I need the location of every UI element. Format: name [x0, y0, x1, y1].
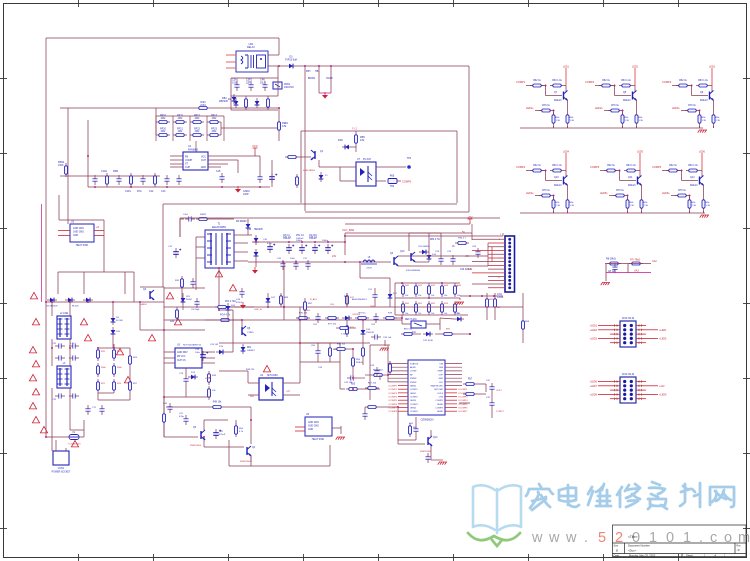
svg-text:HEAT SINK: HEAT SINK	[76, 244, 89, 247]
wire riser x340	[339, 343, 341, 389]
svg-text:C36 1uF: C36 1uF	[383, 337, 392, 339]
wire secondary rails	[234, 234, 252, 236]
svg-text:+24B: +24B	[205, 378, 211, 380]
resistor R84 horiz top	[455, 242, 469, 244]
svg-text:47uH: 47uH	[366, 268, 372, 270]
svg-text:R77 10k: R77 10k	[328, 324, 337, 326]
diode D15	[454, 318, 464, 320]
svg-text:<R: <R	[737, 549, 740, 552]
svg-text:563kΩ: 563kΩ	[356, 362, 363, 364]
bridge diode DB row	[47, 299, 57, 301]
node TP1	[407, 165, 411, 169]
capacitor C16	[259, 173, 261, 177]
transistor Q6	[241, 327, 243, 335]
mosfet Q3 small	[393, 257, 395, 265]
resistor Q11b	[624, 170, 638, 172]
svg-text:D9 SB360: D9 SB360	[236, 221, 247, 223]
capacitor C30 sec	[269, 243, 271, 247]
wire diode stubs	[112, 302, 114, 315]
capacitor C8 mid	[614, 263, 616, 267]
junction dots AC	[51, 301, 53, 303]
svg-text:22P: 22P	[246, 82, 251, 85]
wire bleeder bus	[98, 347, 114, 349]
capacitor C51	[374, 291, 376, 295]
svg-text:LED3: LED3	[709, 66, 716, 69]
resistor Q12e vert	[703, 185, 705, 197]
svg-text:Sheet: Sheet	[686, 554, 693, 558]
svg-text:Monday, May 25, 2010: Monday, May 25, 2010	[629, 554, 656, 558]
transistor Q7	[565, 86, 567, 93]
resistor R37 horiz	[210, 406, 224, 408]
transistor Q1	[314, 151, 316, 159]
strip capacitor C62	[375, 313, 377, 317]
svg-text:OCOMP3: OCOMP3	[458, 397, 468, 399]
svg-text:OVP: OVP	[438, 374, 443, 376]
svg-text:C4n7: C4n7	[183, 214, 189, 216]
strip diode D18	[342, 317, 352, 319]
wire center long bus y288	[164, 287, 205, 289]
transistor Q11	[639, 171, 641, 178]
svg-text:LED4s: LED4s	[526, 192, 534, 195]
wire fb rows bus	[395, 282, 460, 284]
svg-text:OCOMP7: OCOMP7	[458, 411, 468, 413]
wire CN3 left pins	[610, 325, 620, 327]
svg-text:HB: HB	[315, 70, 319, 73]
svg-text:R6E: R6E	[390, 176, 395, 178]
capacitor C11	[118, 175, 120, 179]
wire row2 bottom bus	[520, 212, 705, 214]
capacitor C28	[440, 255, 442, 259]
svg-text:1.1E: 1.1E	[639, 120, 644, 122]
svg-text:GND GND: GND GND	[308, 422, 319, 424]
feedback resistor row1	[402, 283, 404, 297]
diode D12 sec	[255, 249, 257, 259]
wire bus y307 left extension	[164, 306, 300, 308]
resistor R14 vert	[296, 174, 298, 188]
wire CN4 left pins	[610, 381, 620, 383]
svg-text:10k: 10k	[457, 295, 460, 297]
capacitor C41	[491, 383, 493, 387]
transistor Q4	[246, 447, 248, 455]
svg-text:UA2: UA2	[652, 260, 657, 263]
svg-text:2M2: 2M2	[161, 117, 166, 120]
svg-text:CUP: CUP	[185, 166, 190, 169]
svg-text:SFH-615A: SFH-615A	[267, 374, 278, 377]
resistor R31 horiz	[218, 319, 232, 321]
wire LED4 collector stub	[565, 153, 567, 171]
svg-text:1N4148: 1N4148	[366, 332, 374, 334]
svg-text:10k: 10k	[405, 313, 408, 315]
wire bus y320 left extension	[164, 319, 284, 321]
ecap C31	[288, 244, 290, 248]
mosfet Q13	[408, 233, 410, 251]
resistor R91 horiz	[334, 348, 348, 350]
svg-text:VIN: VIN	[439, 363, 443, 365]
svg-text:KA958: KA958	[140, 303, 147, 306]
wire mid bus y272	[58, 271, 134, 273]
svg-text:of: of	[714, 555, 716, 558]
svg-text:1.1E: 1.1E	[556, 120, 561, 122]
svg-text:2M2: 2M2	[212, 117, 217, 120]
ground hatch center	[381, 347, 389, 349]
svg-text:COMP6: COMP6	[652, 165, 662, 169]
wire mid links2	[317, 343, 319, 347]
svg-text:Q10: Q10	[554, 176, 559, 179]
ground hatch U5	[337, 436, 345, 438]
svg-text:+LED7: +LED7	[590, 385, 598, 388]
svg-text:R76 1k: R76 1k	[542, 104, 550, 107]
wire riser x345	[344, 242, 346, 255]
resistor R30 vert	[181, 276, 183, 290]
svg-text:R62 1k: R62 1k	[679, 79, 687, 82]
wire mid bus y407	[166, 406, 210, 408]
ic U3 NCP1207	[175, 348, 202, 368]
wire sec rail2 y262	[248, 261, 360, 263]
resistor Q8d vert	[622, 112, 624, 126]
svg-text:TVR10 6uH: TVR10 6uH	[285, 59, 298, 62]
wire CN3 right pins	[636, 325, 646, 327]
wire rail y224	[345, 223, 470, 225]
resistor grid rows R10-R17	[156, 121, 170, 123]
wire LED3 collector stub	[711, 68, 713, 86]
wire right rail2	[420, 265, 488, 267]
svg-text:GND GND: GND GND	[73, 228, 84, 230]
resistor R8 horiz	[607, 263, 621, 265]
transistor Q5	[200, 431, 202, 439]
svg-text:C10A: C10A	[101, 170, 107, 173]
resistor R5 vert left	[65, 163, 67, 177]
resistor R60v vert	[389, 361, 391, 375]
wire bus into U1 area	[60, 107, 196, 109]
ecap C17	[271, 173, 273, 177]
svg-text:FL3: FL3	[352, 127, 358, 131]
svg-text:R76 1k: R76 1k	[616, 189, 624, 192]
vcc arrow sec	[469, 219, 471, 223]
svg-text:FB VCC: FB VCC	[177, 356, 186, 358]
ground R8 block	[602, 282, 610, 284]
capacitor C20 snub	[192, 278, 194, 282]
svg-text:100u: 100u	[195, 352, 201, 354]
svg-text:R62 1k: R62 1k	[533, 79, 541, 82]
wire bulk stubs	[304, 66, 306, 211]
svg-text:2M2: 2M2	[161, 130, 166, 133]
resistor Q8b	[619, 85, 633, 87]
svg-text:100P: 100P	[243, 193, 249, 196]
junction dots center	[218, 309, 220, 311]
resistor R3 vert	[267, 96, 269, 110]
capacitor C40	[364, 410, 366, 414]
svg-text:GEND: GEND	[437, 411, 444, 413]
wire cluster link	[415, 333, 421, 335]
svg-text:0.1E: 0.1E	[232, 82, 237, 85]
resistor R71 vert	[346, 293, 348, 307]
wire bus y343	[300, 342, 370, 344]
svg-text:C11S: C11S	[125, 190, 131, 193]
resistor R61v	[409, 423, 411, 437]
svg-text:ICOMP1: ICOMP1	[389, 386, 398, 388]
transistor Q10	[565, 171, 567, 178]
junction dots sec rail	[255, 241, 257, 243]
svg-text:CN4 CN-M: CN4 CN-M	[622, 373, 634, 376]
diode D11 sec	[255, 235, 257, 245]
ecap C34	[327, 244, 329, 248]
svg-text:GND_A: GND_A	[254, 308, 262, 311]
resistor R72 vert	[346, 323, 348, 337]
svg-text:OCOMP5: OCOMP5	[458, 404, 468, 406]
svg-text:Date:: Date:	[614, 554, 620, 558]
wire Q9 bottom	[699, 126, 701, 128]
svg-text:Q12: Q12	[690, 176, 695, 179]
svg-text:C1845: C1845	[247, 332, 254, 334]
svg-text:TP1: TP1	[407, 157, 412, 160]
svg-text:FL24B: FL24B	[116, 320, 123, 322]
svg-text:GND: GND	[308, 429, 313, 431]
wire U4 pins	[248, 382, 259, 384]
svg-text:P04 4.7kΩ: P04 4.7kΩ	[225, 301, 236, 303]
resistor Q11e vert	[641, 185, 643, 197]
diode D22 pair	[267, 295, 269, 305]
svg-text:1.1E: 1.1E	[706, 205, 711, 207]
resistor R55 horiz	[346, 388, 360, 390]
svg-text:COMP0: COMP0	[402, 180, 412, 184]
wire AC rail y66	[296, 65, 469, 67]
svg-text:+LED1: +LED1	[590, 325, 598, 328]
svg-text:GND: GND	[201, 166, 207, 169]
wire relay right top pin	[268, 54, 279, 56]
svg-text:R58 100: R58 100	[337, 343, 346, 345]
wire vcc_bar rail	[344, 233, 346, 242]
svg-text:1000uF: 1000uF	[296, 238, 304, 240]
resistor Q7b	[550, 85, 564, 87]
wire U2 pins	[58, 230, 70, 232]
svg-text:D20 SB360: D20 SB360	[418, 246, 430, 248]
svg-text:VREF: VREF	[437, 371, 443, 373]
wire AC section verticals	[51, 302, 53, 316]
wire relay input stubs	[226, 54, 236, 56]
svg-text:R62 1k: R62 1k	[669, 164, 677, 167]
svg-text:R76 1k: R76 1k	[611, 104, 619, 107]
svg-text:R7A: R7A	[137, 190, 142, 193]
diode D17	[389, 291, 391, 301]
wire CN4 right pins	[636, 381, 646, 383]
svg-text:GND GND: GND GND	[73, 232, 84, 234]
svg-text:ICOMP2: ICOMP2	[389, 389, 398, 391]
svg-text:OCOMP4: OCOMP4	[458, 400, 468, 402]
svg-text:R6M: R6M	[113, 170, 118, 173]
wire U6 left bus	[387, 345, 389, 382]
svg-text:GEN2: GEN2	[410, 393, 417, 395]
node dots center	[283, 306, 285, 308]
svg-text:C13: C13	[161, 190, 166, 193]
svg-text:ZD1: ZD1	[247, 347, 252, 349]
svg-text:LED3s: LED3s	[672, 107, 680, 110]
svg-text:+LED8: +LED8	[590, 393, 598, 396]
svg-text:1.1E: 1.1E	[716, 120, 721, 122]
svg-text:470p: 470p	[179, 416, 185, 418]
capacitor C35 row2	[282, 260, 284, 264]
wire U5 red stubs	[295, 426, 305, 428]
wire U4 right riser	[299, 343, 301, 383]
svg-text:GEN3: GEN3	[410, 400, 417, 402]
resistor Q12b	[686, 170, 700, 172]
svg-text:2M2: 2M2	[195, 130, 200, 133]
wire grid to U1 riser	[195, 141, 197, 152]
svg-text:R63 1.1k: R63 1.1k	[552, 79, 562, 82]
ecap C32	[301, 244, 303, 248]
transistor Q14	[427, 437, 429, 445]
svg-text:POWER SOCKET: POWER SOCKET	[52, 472, 71, 474]
diode D2	[235, 98, 237, 108]
svg-text:+LED4: +LED4	[659, 329, 667, 332]
diode D13	[214, 351, 216, 353]
diode D5 vert	[233, 94, 235, 104]
svg-text:OCOMP6: OCOMP6	[458, 408, 468, 410]
ground hatch fb	[456, 301, 464, 303]
resistor Q9b	[696, 85, 710, 87]
capacitor C2 row	[236, 81, 238, 85]
capacitor C72 horiz	[347, 377, 351, 379]
cluster resistor R82	[441, 333, 455, 335]
svg-text:LED1: LED1	[563, 66, 570, 69]
svg-text:4.7kΩ: 4.7kΩ	[341, 334, 347, 336]
svg-text:R76 1k: R76 1k	[678, 189, 686, 192]
snubber diode DS1	[247, 221, 249, 231]
warning triangles left column	[30, 292, 37, 298]
resistor Q11d vert	[627, 197, 629, 211]
capacitor CX3	[55, 395, 59, 397]
wire vcc_bar long rail	[345, 235, 503, 237]
wire CN1 pin leads	[472, 238, 505, 240]
wire transformer left feeds	[196, 236, 205, 238]
bleeder resistors col1	[97, 347, 99, 361]
resistor R7 vert	[130, 173, 132, 187]
wire Q7 bottom	[553, 126, 555, 128]
wire long bus1	[300, 306, 523, 308]
diode ZD2	[242, 344, 244, 354]
capacitor C18	[202, 351, 204, 355]
ground bulk	[324, 92, 326, 95]
resistor R54 vert	[522, 318, 524, 332]
wire u6 right links	[477, 383, 486, 385]
wire CN1 feeds	[420, 232, 472, 234]
svg-text:470nF: 470nF	[236, 302, 243, 304]
svg-text:PWM2: PWM2	[410, 378, 417, 380]
power socket CON1	[53, 451, 69, 465]
resistor R73 horiz	[215, 306, 229, 308]
svg-text:10k: 10k	[431, 295, 434, 297]
ground row1	[699, 129, 707, 131]
warning triangle U4	[263, 365, 270, 371]
svg-text:1.1E: 1.1E	[625, 120, 630, 122]
capacitor C29	[452, 255, 454, 259]
svg-text:RANGE/LED: RANGE/LED	[431, 384, 444, 387]
diode D14	[428, 252, 430, 262]
svg-text:SSTCMP: SSTCMP	[434, 389, 443, 391]
ecap C33	[314, 244, 316, 248]
svg-text:+LED9: +LED9	[659, 393, 667, 396]
svg-text:R63 1.1k: R63 1.1k	[552, 164, 562, 167]
svg-text:CON1: CON1	[58, 468, 65, 470]
svg-text:ADIM: ADIM	[410, 366, 416, 369]
svg-text:MJE13: MJE13	[623, 99, 631, 102]
vcc bar wire	[237, 160, 239, 173]
svg-text:OCOMP1: OCOMP1	[458, 389, 468, 391]
wire bus y466 bottom	[229, 465, 330, 467]
svg-text:ICOMP3: ICOMP3	[389, 393, 398, 395]
resistor R59 vert	[362, 345, 364, 359]
svg-text:MJE13: MJE13	[690, 184, 698, 187]
svg-text:24V: 24V	[332, 255, 337, 258]
svg-text:65H: 65H	[306, 70, 311, 73]
wire Q11 bottom	[627, 211, 629, 213]
svg-text:2M2: 2M2	[212, 130, 217, 133]
title block	[613, 525, 747, 557]
cluster under fb: resistor R80b	[401, 333, 415, 335]
resistor Q8a	[599, 85, 613, 87]
svg-text:Q14: Q14	[433, 437, 438, 439]
capacitor C71 horiz	[371, 336, 375, 338]
svg-text:+LED3: +LED3	[590, 337, 598, 340]
capacitor C14	[178, 175, 180, 179]
wire relay to D1 rail	[268, 65, 286, 67]
resistor R13 base	[285, 156, 299, 158]
wire right edge of rect B	[468, 66, 470, 212]
svg-text:R80 4.7Ω: R80 4.7Ω	[430, 239, 440, 241]
svg-text:C12: C12	[149, 190, 154, 193]
svg-text:w: w	[548, 530, 560, 546]
wire T1 top link	[180, 218, 184, 220]
diode D24 vert	[227, 303, 229, 313]
svg-text:R_ADJ: R_ADJ	[310, 298, 317, 301]
svg-text:ICOMP6: ICOMP6	[389, 404, 398, 406]
ground sec	[254, 267, 256, 270]
capacitor C3 row	[250, 81, 252, 85]
svg-text:HER205: HER205	[254, 229, 263, 231]
wire q13 links	[409, 232, 441, 234]
diode D1	[286, 65, 296, 67]
resistor Q7e vert	[567, 100, 569, 112]
warning triangle C43	[229, 284, 236, 290]
regulator U5 heatsink	[305, 417, 332, 436]
wire LED2 collector stub	[634, 68, 636, 86]
svg-text:BD/R1: BD/R1	[308, 77, 316, 80]
capacitor C50 mid	[317, 347, 319, 351]
svg-text:PC-817: PC-817	[363, 158, 372, 161]
svg-text:LED4: LED4	[563, 151, 570, 154]
cluster diode D21	[423, 333, 433, 335]
svg-text:STATUS: STATUS	[410, 362, 419, 365]
svg-text:R3M3: R3M3	[200, 214, 207, 216]
resistor R2 vert	[245, 96, 247, 110]
wire LED5 collector stub	[639, 153, 641, 171]
svg-text:L2 LINE: L2 LINE	[60, 313, 69, 315]
resistor R4 horiz	[196, 107, 210, 109]
svg-text:10k: 10k	[405, 295, 408, 297]
wire AC left vertical	[45, 302, 47, 437]
svg-text:B: B	[616, 549, 618, 553]
capacitor C15	[221, 173, 223, 177]
svg-text:+5V: +5V	[467, 215, 472, 219]
svg-text:KA9STA904: KA9STA904	[303, 169, 316, 172]
svg-text:R62 1k: R62 1k	[533, 164, 541, 167]
wire Q5 Q4 links	[164, 436, 198, 438]
svg-text:<Doc>: <Doc>	[628, 549, 637, 553]
wire Q8 bottom	[622, 126, 624, 128]
inductor L5	[361, 261, 377, 263]
transistor Q2 snubber	[149, 291, 151, 299]
svg-text:LED5s: LED5s	[600, 192, 608, 195]
svg-text:10U: 10U	[260, 82, 265, 85]
